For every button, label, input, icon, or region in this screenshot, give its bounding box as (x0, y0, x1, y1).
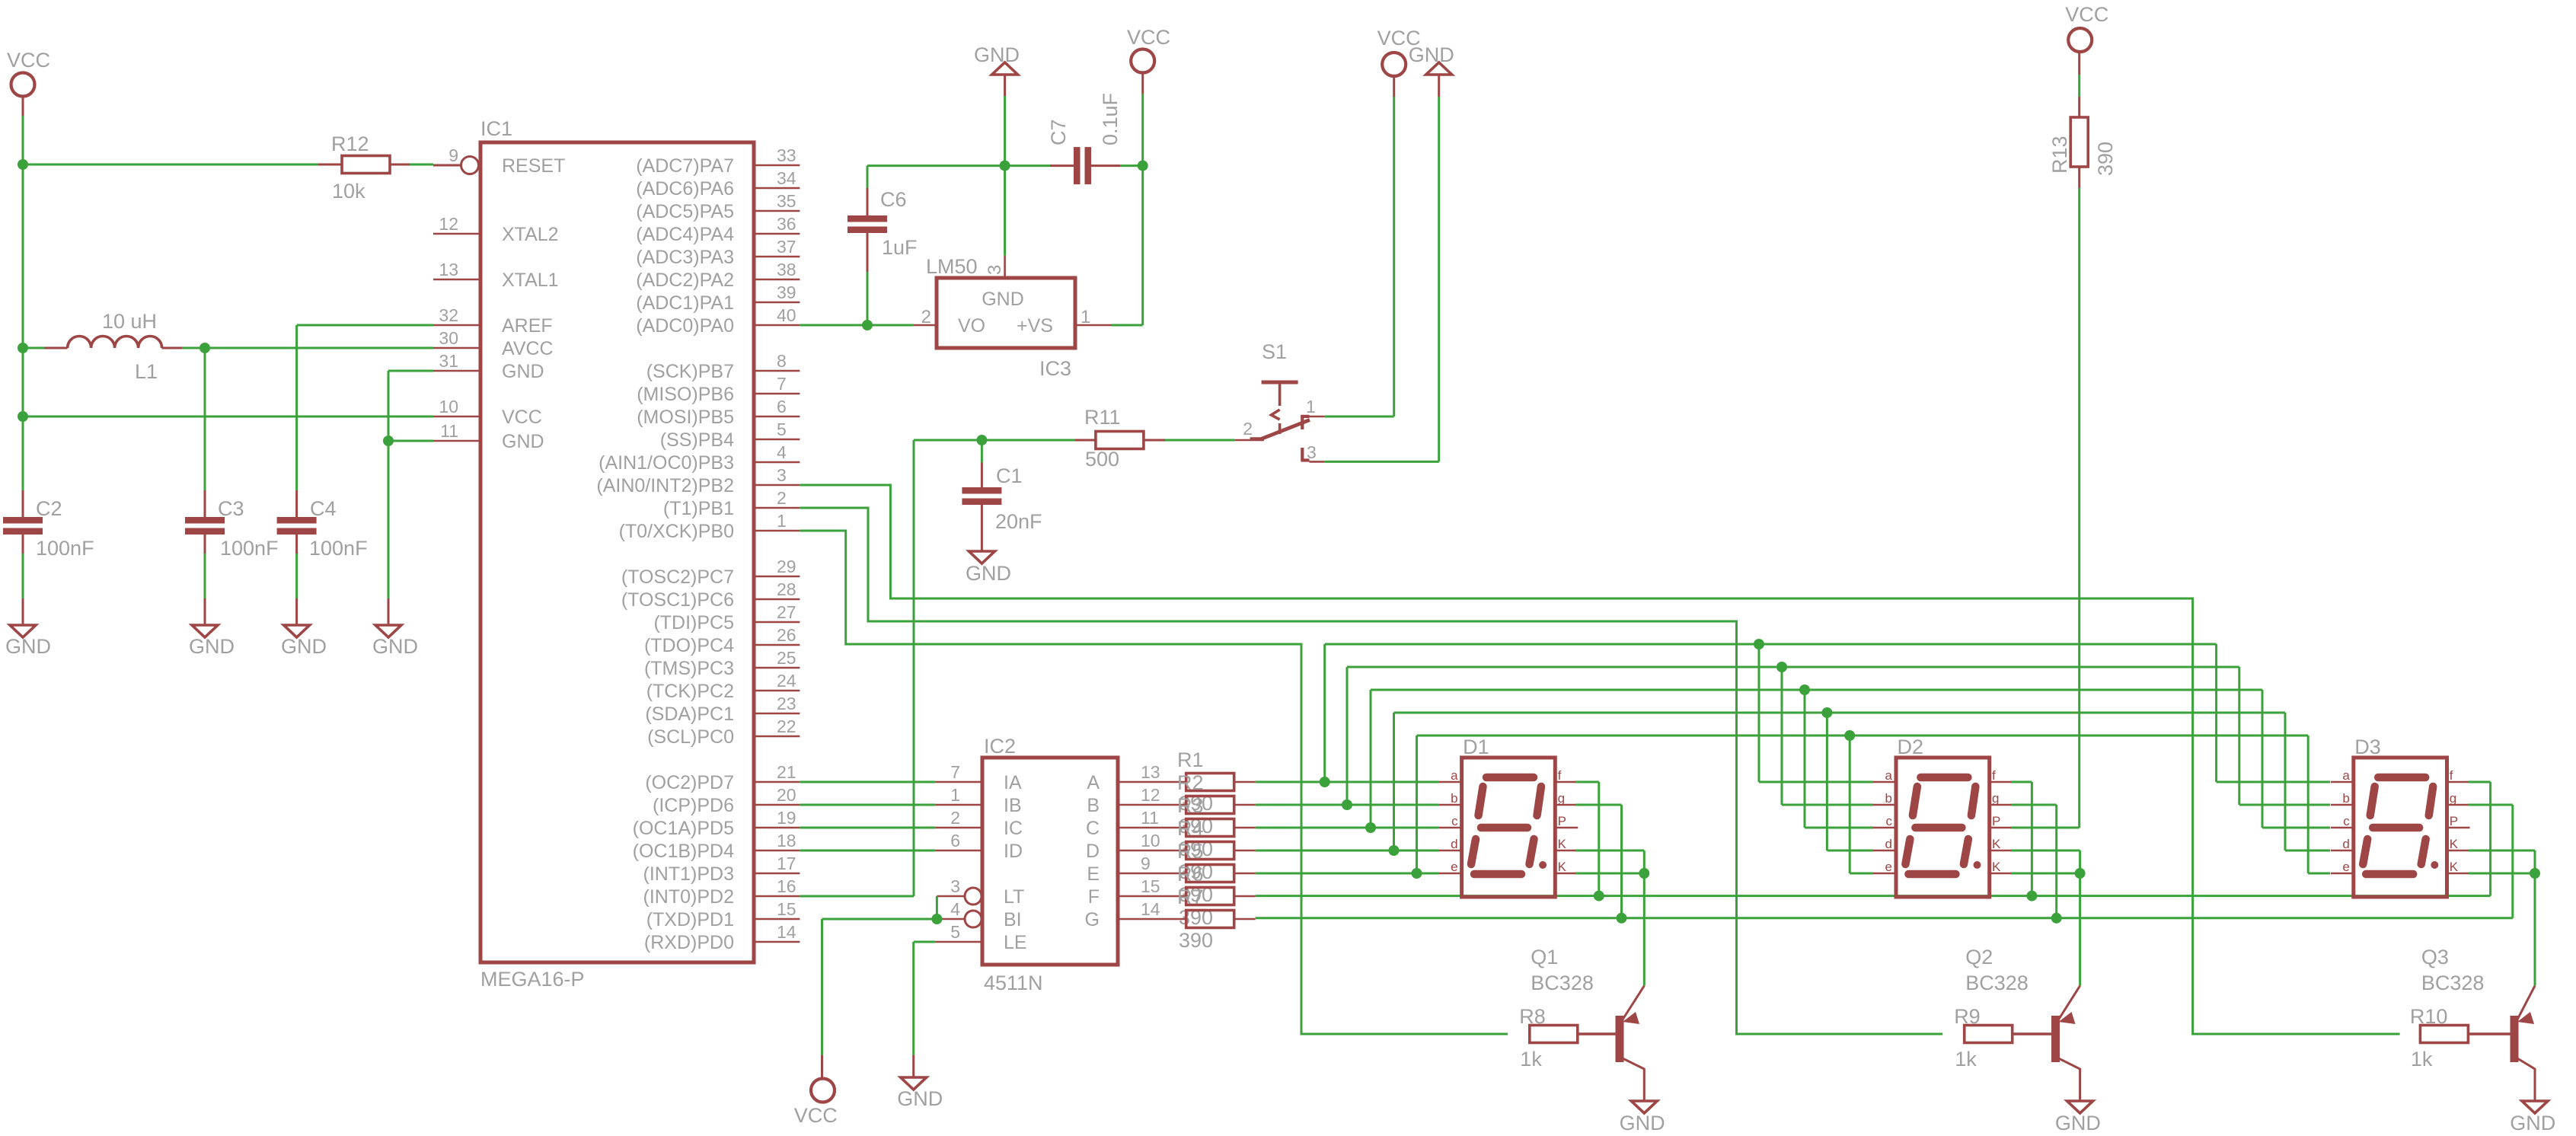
svg-text:20: 20 (777, 785, 796, 805)
svg-text:11: 11 (440, 421, 458, 441)
svg-text:GND: GND (1620, 1112, 1665, 1134)
svg-text:K: K (2450, 837, 2459, 851)
svg-text:R8: R8 (1519, 1005, 1546, 1028)
svg-text:1uF: 1uF (882, 236, 918, 259)
svg-text:10k: 10k (332, 180, 365, 203)
svg-text:(ICP)PD6: (ICP)PD6 (653, 795, 734, 816)
svg-text:AREF: AREF (502, 315, 553, 337)
svg-text:(AIN1/OC0)PB3: (AIN1/OC0)PB3 (599, 452, 734, 474)
svg-text:a: a (1451, 768, 1458, 783)
svg-text:GND: GND (897, 1087, 943, 1110)
svg-text:(OC2)PD7: (OC2)PD7 (645, 772, 734, 793)
svg-text:LE: LE (1004, 932, 1027, 953)
svg-text:R3: R3 (1177, 794, 1204, 817)
svg-text:f: f (1992, 768, 1996, 783)
svg-text:10: 10 (1141, 831, 1160, 850)
svg-text:29: 29 (777, 557, 796, 576)
svg-text:(MISO)PB6: (MISO)PB6 (637, 384, 734, 405)
svg-text:GND: GND (2055, 1112, 2101, 1134)
svg-text:(SS)PB4: (SS)PB4 (660, 429, 734, 451)
svg-text:(SCK)PB7: (SCK)PB7 (646, 361, 734, 382)
svg-text:17: 17 (777, 854, 796, 873)
svg-text:4511N: 4511N (984, 972, 1043, 994)
svg-text:BC328: BC328 (1965, 972, 2029, 994)
svg-text:(TCK)PC2: (TCK)PC2 (646, 681, 734, 702)
svg-text:BI: BI (1004, 909, 1022, 930)
svg-text:15: 15 (1141, 876, 1160, 896)
svg-text:10 uH: 10 uH (102, 310, 157, 333)
svg-text:GND: GND (974, 43, 1020, 66)
svg-text:6: 6 (777, 397, 787, 416)
svg-text:f: f (1558, 768, 1562, 783)
svg-text:3: 3 (777, 465, 787, 485)
svg-text:IC2: IC2 (984, 735, 1016, 758)
svg-text:LM50: LM50 (926, 255, 978, 278)
svg-text:36: 36 (777, 214, 796, 234)
svg-text:R1: R1 (1177, 748, 1204, 771)
svg-text:3: 3 (1307, 442, 1317, 462)
svg-text:19: 19 (777, 808, 796, 828)
svg-text:c: c (1451, 814, 1458, 828)
svg-text:7: 7 (950, 762, 960, 782)
svg-text:Q1: Q1 (1531, 946, 1558, 968)
svg-text:7: 7 (777, 374, 787, 394)
svg-text:12: 12 (439, 214, 458, 234)
svg-text:C3: C3 (218, 497, 244, 520)
svg-text:R10: R10 (2410, 1005, 2448, 1028)
svg-text:VCC: VCC (502, 407, 542, 428)
svg-text:R7: R7 (1177, 886, 1204, 908)
svg-text:(MOSI)PB5: (MOSI)PB5 (637, 407, 734, 428)
svg-text:100nF: 100nF (36, 537, 94, 560)
svg-text:1: 1 (1081, 307, 1090, 327)
svg-text:2: 2 (921, 307, 931, 327)
svg-text:(ADC4)PA4: (ADC4)PA4 (636, 224, 734, 245)
svg-text:IC3: IC3 (1039, 357, 1071, 380)
svg-text:39: 39 (777, 282, 796, 302)
svg-text:(ADC0)PA0: (ADC0)PA0 (636, 315, 734, 337)
svg-text:b: b (1885, 791, 1892, 806)
svg-text:R6: R6 (1177, 863, 1204, 886)
svg-text:1: 1 (950, 785, 960, 805)
svg-text:GND: GND (1409, 43, 1454, 66)
svg-text:500: 500 (1085, 448, 1119, 471)
svg-text:14: 14 (1141, 899, 1160, 919)
svg-text:ID: ID (1004, 841, 1023, 862)
svg-text:34: 34 (777, 168, 796, 188)
svg-text:GND: GND (982, 289, 1024, 310)
svg-text:Q3: Q3 (2421, 946, 2449, 968)
svg-text:12: 12 (1141, 785, 1160, 805)
svg-text:27: 27 (777, 602, 796, 622)
svg-text:1: 1 (1306, 397, 1316, 416)
svg-text:+VS: +VS (1017, 315, 1053, 337)
svg-text:(ADC6)PA6: (ADC6)PA6 (636, 178, 734, 199)
svg-text:(TOSC2)PC7: (TOSC2)PC7 (621, 566, 734, 588)
svg-text:1k: 1k (1520, 1048, 1542, 1071)
svg-text:(SDA)PC1: (SDA)PC1 (645, 704, 734, 725)
svg-text:16: 16 (777, 876, 796, 896)
svg-text:GND: GND (281, 635, 327, 658)
svg-text:c: c (1886, 814, 1893, 828)
svg-text:(OC1A)PD5: (OC1A)PD5 (633, 818, 734, 839)
svg-text:d: d (2342, 837, 2349, 851)
svg-text:(AIN0/INT2)PB2: (AIN0/INT2)PB2 (596, 475, 734, 496)
svg-text:(ADC3)PA3: (ADC3)PA3 (636, 247, 734, 268)
svg-text:e: e (2342, 860, 2349, 874)
svg-text:C4: C4 (310, 497, 337, 520)
svg-text:C2: C2 (36, 497, 62, 520)
svg-text:R4: R4 (1177, 817, 1204, 840)
svg-text:a: a (1885, 768, 1893, 783)
svg-text:XTAL1: XTAL1 (502, 270, 559, 291)
svg-text:VO: VO (958, 315, 985, 337)
svg-text:g: g (1558, 791, 1565, 806)
svg-text:(T1)PB1: (T1)PB1 (663, 498, 734, 519)
svg-text:6: 6 (950, 831, 960, 850)
svg-text:C1: C1 (996, 464, 1023, 487)
svg-text:(T0/XCK)PB0: (T0/XCK)PB0 (619, 521, 734, 542)
svg-text:30: 30 (439, 328, 458, 348)
svg-text:F: F (1088, 886, 1100, 908)
svg-text:(SCL)PC0: (SCL)PC0 (647, 726, 734, 748)
svg-text:390: 390 (2094, 142, 2117, 176)
svg-text:0.1uF: 0.1uF (1099, 93, 1122, 145)
svg-text:14: 14 (777, 922, 796, 942)
svg-text:(ADC7)PA7: (ADC7)PA7 (636, 155, 734, 177)
svg-text:VCC: VCC (1127, 26, 1170, 49)
svg-text:R13: R13 (2048, 136, 2071, 174)
svg-text:A: A (1087, 772, 1100, 793)
svg-text:22: 22 (777, 716, 796, 736)
svg-text:R11: R11 (1084, 406, 1121, 429)
svg-text:d: d (1885, 837, 1892, 851)
svg-text:2: 2 (950, 808, 960, 828)
svg-text:20nF: 20nF (995, 510, 1042, 533)
svg-text:(ADC2)PA2: (ADC2)PA2 (636, 270, 734, 291)
svg-text:Q2: Q2 (1965, 946, 1993, 968)
svg-text:AVCC: AVCC (502, 338, 554, 359)
svg-text:IB: IB (1004, 795, 1022, 816)
svg-text:GND: GND (5, 635, 51, 658)
svg-text:b: b (1451, 791, 1457, 806)
svg-text:(ADC5)PA5: (ADC5)PA5 (636, 201, 734, 222)
svg-text:38: 38 (777, 260, 796, 279)
svg-text:1k: 1k (2411, 1048, 2433, 1071)
svg-text:(INT0)PD2: (INT0)PD2 (643, 886, 734, 908)
svg-text:5: 5 (950, 922, 960, 942)
svg-text:BC328: BC328 (1531, 972, 1594, 994)
svg-text:D1: D1 (1463, 736, 1489, 758)
svg-text:D3: D3 (2354, 736, 2381, 758)
svg-text:K: K (1992, 860, 2001, 874)
svg-text:33: 33 (777, 145, 796, 165)
svg-text:K: K (1558, 837, 1567, 851)
svg-text:37: 37 (777, 237, 796, 257)
svg-text:G: G (1085, 909, 1100, 930)
svg-text:g: g (1992, 791, 1999, 806)
svg-text:C: C (1086, 818, 1100, 839)
svg-text:C6: C6 (880, 188, 907, 211)
svg-text:8: 8 (777, 351, 787, 371)
svg-text:K: K (1992, 837, 2001, 851)
svg-text:XTAL2: XTAL2 (502, 224, 559, 245)
svg-text:IA: IA (1004, 772, 1022, 793)
svg-text:(TOSC1)PC6: (TOSC1)PC6 (621, 589, 734, 611)
svg-text:(RXD)PD0: (RXD)PD0 (644, 932, 734, 953)
svg-text:GND: GND (502, 361, 544, 382)
svg-text:GND: GND (189, 635, 235, 658)
svg-text:MEGA16-P: MEGA16-P (480, 968, 585, 991)
svg-text:13: 13 (439, 260, 458, 279)
svg-text:100nF: 100nF (309, 537, 368, 560)
svg-text:C7: C7 (1047, 119, 1070, 145)
svg-text:35: 35 (777, 191, 796, 211)
svg-text:40: 40 (777, 305, 796, 325)
svg-text:(OC1B)PD4: (OC1B)PD4 (633, 841, 734, 862)
svg-text:P: P (2450, 814, 2458, 828)
svg-text:e: e (1451, 860, 1457, 874)
svg-text:10: 10 (439, 397, 458, 416)
svg-text:15: 15 (777, 899, 796, 919)
svg-text:VCC: VCC (7, 49, 50, 72)
svg-text:R9: R9 (1954, 1005, 1981, 1028)
svg-text:GND: GND (372, 635, 418, 658)
svg-text:5: 5 (777, 420, 787, 439)
svg-text:9: 9 (448, 145, 458, 165)
svg-text:R2: R2 (1177, 771, 1204, 794)
svg-text:VCC: VCC (794, 1104, 838, 1127)
svg-text:23: 23 (777, 694, 796, 713)
svg-text:13: 13 (1141, 762, 1160, 782)
svg-text:RESET: RESET (502, 155, 565, 177)
svg-text:IC1: IC1 (480, 117, 512, 140)
svg-text:g: g (2450, 791, 2456, 806)
svg-text:E: E (1087, 863, 1100, 885)
svg-text:28: 28 (777, 579, 796, 599)
svg-text:3: 3 (985, 265, 1005, 275)
svg-text:2: 2 (1243, 419, 1253, 439)
svg-text:2: 2 (777, 488, 787, 508)
svg-text:d: d (1451, 837, 1457, 851)
svg-text:26: 26 (777, 625, 796, 645)
svg-text:31: 31 (439, 351, 458, 371)
svg-text:4: 4 (950, 899, 960, 919)
svg-text:GND: GND (2510, 1112, 2555, 1134)
svg-text:25: 25 (777, 648, 796, 668)
svg-text:L1: L1 (135, 360, 158, 383)
svg-text:S1: S1 (1262, 340, 1287, 363)
svg-text:18: 18 (777, 831, 796, 850)
svg-text:a: a (2342, 768, 2350, 783)
svg-text:c: c (2343, 814, 2350, 828)
svg-text:(TDO)PC4: (TDO)PC4 (644, 635, 734, 656)
svg-text:K: K (2450, 860, 2459, 874)
svg-text:9: 9 (1141, 854, 1151, 873)
svg-text:(TMS)PC3: (TMS)PC3 (644, 658, 734, 679)
svg-text:390: 390 (1179, 929, 1213, 952)
svg-text:4: 4 (777, 442, 787, 462)
svg-text:LT: LT (1004, 886, 1024, 908)
svg-text:100nF: 100nF (220, 537, 279, 560)
svg-text:BC328: BC328 (2421, 972, 2485, 994)
svg-text:R12: R12 (331, 132, 369, 155)
svg-text:21: 21 (777, 762, 796, 782)
svg-text:P: P (1558, 814, 1566, 828)
svg-text:3: 3 (950, 876, 960, 896)
svg-text:D: D (1086, 841, 1100, 862)
svg-text:K: K (1558, 860, 1567, 874)
svg-text:24: 24 (777, 671, 796, 691)
svg-text:b: b (2342, 791, 2349, 806)
svg-text:GND: GND (502, 431, 544, 452)
svg-text:(ADC1)PA1: (ADC1)PA1 (636, 292, 734, 314)
svg-text:(TXD)PD1: (TXD)PD1 (646, 909, 734, 930)
svg-text:(INT1)PD3: (INT1)PD3 (643, 863, 734, 885)
svg-text:IC: IC (1004, 818, 1023, 839)
svg-text:1: 1 (777, 511, 787, 531)
svg-text:f: f (2450, 768, 2453, 783)
svg-text:11: 11 (1141, 808, 1159, 828)
svg-text:R5: R5 (1177, 840, 1204, 863)
svg-text:e: e (1885, 860, 1892, 874)
svg-text:D2: D2 (1898, 736, 1924, 758)
svg-text:B: B (1087, 795, 1100, 816)
svg-text:GND: GND (966, 562, 1011, 585)
svg-text:(TDI)PC5: (TDI)PC5 (653, 612, 734, 633)
svg-text:32: 32 (439, 305, 458, 325)
svg-text:1k: 1k (1955, 1048, 1977, 1071)
svg-text:VCC: VCC (2065, 3, 2108, 26)
svg-text:P: P (1992, 814, 2000, 828)
